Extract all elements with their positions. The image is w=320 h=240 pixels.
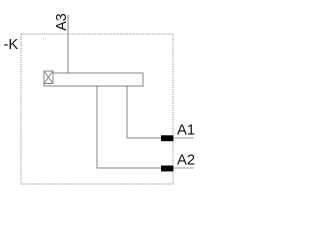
device boundary -K (dashed outline) (21, 34, 173, 184)
contactor coil K (rectangle) (44, 73, 143, 86)
svg-text:-K: -K (4, 37, 19, 53)
wire: external stub at A1 (174, 137, 194, 139)
terminal A1 (black clamp block) (161, 135, 173, 141)
surge suppressor module (box with X) (44, 71, 53, 84)
wire: external stub at A2 (174, 167, 194, 169)
svg-text:A1: A1 (177, 123, 195, 139)
wire: coil bottom to terminal A2 (97, 86, 161, 168)
wire: coil bottom to terminal A1 (127, 86, 161, 138)
svg-text:A2: A2 (177, 153, 195, 169)
wire: A3 lead (vertical) (67, 15, 69, 74)
terminal A2 (black clamp block) (161, 166, 173, 172)
